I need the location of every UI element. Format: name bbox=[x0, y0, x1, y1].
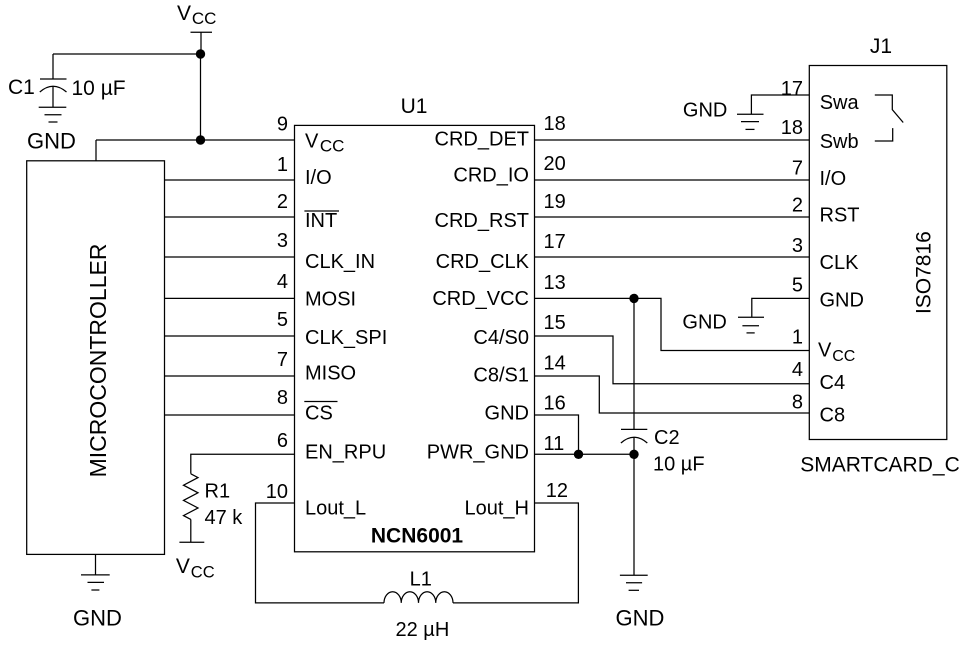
wire L1 to U1 Lout_H pin12 bbox=[453, 503, 578, 603]
svg-text:CLK: CLK bbox=[820, 252, 860, 274]
svg-text:Swa: Swa bbox=[820, 92, 860, 114]
J1 pin number 18 bbox=[781, 117, 803, 139]
svg-text:I/O: I/O bbox=[305, 167, 332, 189]
svg-text:Swb: Swb bbox=[820, 131, 859, 153]
node VCC label (top) bbox=[177, 2, 216, 28]
connector J1 box bbox=[809, 66, 947, 440]
svg-text:7: 7 bbox=[792, 157, 803, 179]
inductor L1 bbox=[384, 592, 453, 603]
J1 pin number 1 bbox=[792, 327, 803, 349]
svg-text:V: V bbox=[305, 131, 319, 153]
J1 pin label C8 bbox=[820, 404, 846, 426]
svg-text:ISO7816: ISO7816 bbox=[913, 231, 936, 314]
inductor L1 reference label bbox=[410, 569, 432, 591]
svg-text:MISO: MISO bbox=[305, 363, 356, 385]
capacitor C1 reference label bbox=[8, 76, 35, 99]
wire CRD_DET to J1 Swb bbox=[535, 139, 810, 141]
svg-text:MICROCONTROLLER: MICROCONTROLLER bbox=[85, 244, 111, 478]
svg-text:3: 3 bbox=[792, 235, 803, 257]
svg-text:GND: GND bbox=[27, 129, 76, 154]
op-amp U1 box NCN6001 bbox=[295, 125, 535, 551]
U1 pin number 8 bbox=[277, 387, 288, 409]
ground GND label below C2 bbox=[616, 605, 665, 630]
wire MCU to U1 pin 1 bbox=[165, 179, 295, 181]
svg-text:12: 12 bbox=[546, 480, 568, 502]
svg-text:5: 5 bbox=[277, 309, 288, 331]
svg-text:C1: C1 bbox=[8, 76, 35, 99]
U1 pin label GND bbox=[485, 403, 529, 425]
capacitor C1 value 10 uF bbox=[72, 77, 126, 100]
U1 pin label Lout_L bbox=[305, 497, 366, 519]
wire J1 pin17 to ground bbox=[751, 95, 809, 114]
power VCC bar below R1 bbox=[179, 541, 204, 543]
junction dot at VCC stem top bbox=[196, 49, 205, 58]
capacitor C1 bbox=[40, 54, 67, 107]
svg-text:18: 18 bbox=[781, 117, 803, 139]
J1 pin label GND bbox=[820, 290, 864, 312]
wire MCU to U1 pin 4 bbox=[165, 297, 295, 299]
junction dot CRD_VCC / C2 bbox=[629, 294, 638, 303]
svg-text:V: V bbox=[176, 555, 190, 578]
J1 pin label VCC bbox=[818, 340, 855, 365]
U1 pin label Lout_H bbox=[465, 497, 530, 519]
U1 pin number 2 bbox=[277, 191, 288, 213]
U1 pin label CS (active low) bbox=[305, 403, 333, 425]
U1 pin label CRD_IO bbox=[453, 165, 529, 187]
node VCC label below R1 bbox=[176, 555, 215, 581]
U1 pin number 12 bbox=[546, 480, 568, 502]
svg-text:17: 17 bbox=[781, 78, 803, 100]
svg-text:6: 6 bbox=[277, 430, 288, 452]
J1 pin label Swa bbox=[820, 92, 860, 114]
svg-text:4: 4 bbox=[277, 271, 288, 293]
J1 pin label CLK bbox=[820, 252, 860, 274]
ground symbol below C1 bbox=[39, 107, 67, 122]
svg-text:C8/S1: C8/S1 bbox=[473, 365, 529, 387]
wire VCC vertical stem down to pin9 row bbox=[200, 54, 202, 140]
overline for INT bbox=[304, 210, 339, 212]
U1 pin number 20 bbox=[544, 153, 566, 175]
svg-text:MOSI: MOSI bbox=[305, 289, 356, 311]
svg-text:GND: GND bbox=[485, 403, 529, 425]
U1 reference label bbox=[401, 95, 428, 118]
wire pin 9 row to U1 and jog down to microcontroller bbox=[96, 140, 295, 161]
junction dot pin11/C2 bbox=[629, 450, 638, 459]
inductor L1 value 22 uH bbox=[396, 619, 450, 641]
svg-text:15: 15 bbox=[544, 312, 566, 334]
svg-text:CRD_RST: CRD_RST bbox=[435, 210, 529, 232]
U1 pin number 16 bbox=[544, 393, 566, 415]
wire U1 Lout_L pin10 to L1 bbox=[256, 503, 385, 603]
ground GND label at J1 pin17 bbox=[683, 100, 727, 122]
svg-text:CRD_DET: CRD_DET bbox=[435, 129, 529, 151]
wire C4/S0 to J1 C4 bbox=[535, 336, 810, 384]
junction dot pin16/pin11 bbox=[574, 450, 583, 459]
U1 pin number 15 bbox=[544, 312, 566, 334]
wire MCU to U1 pin 8 bbox=[165, 414, 295, 416]
ground GND label below C1 bbox=[27, 129, 76, 154]
svg-text:CRD_CLK: CRD_CLK bbox=[436, 251, 530, 273]
svg-text:EN_RPU: EN_RPU bbox=[305, 442, 386, 464]
svg-text:18: 18 bbox=[544, 113, 566, 135]
capacitor C2 reference label bbox=[654, 427, 680, 449]
microcontroller label (rotated) bbox=[85, 244, 111, 478]
U1 pin label MOSI bbox=[305, 289, 356, 311]
U1 pin label INT (active low) bbox=[305, 210, 337, 232]
svg-text:PWR_GND: PWR_GND bbox=[427, 442, 529, 464]
U1 pin label C4/S0 bbox=[473, 327, 529, 349]
J1 pin number 4 bbox=[792, 359, 803, 381]
J1 pin number 17 bbox=[781, 78, 803, 100]
svg-text:1: 1 bbox=[277, 154, 288, 176]
microcontroller box bbox=[27, 161, 165, 555]
U1 pin number 1 bbox=[277, 154, 288, 176]
J1 pin label Swb bbox=[820, 131, 859, 153]
svg-text:CRD_IO: CRD_IO bbox=[453, 165, 529, 187]
svg-text:C8: C8 bbox=[820, 404, 846, 426]
svg-text:47 k: 47 k bbox=[205, 507, 244, 529]
svg-text:V: V bbox=[177, 2, 191, 25]
svg-text:10: 10 bbox=[266, 481, 288, 503]
svg-text:3: 3 bbox=[277, 230, 288, 252]
svg-text:7: 7 bbox=[277, 349, 288, 371]
svg-text:13: 13 bbox=[544, 272, 566, 294]
svg-text:C4: C4 bbox=[820, 372, 846, 394]
U1 pin number 7 bbox=[277, 349, 288, 371]
U1 pin label EN_RPU bbox=[305, 442, 386, 464]
svg-text:C4/S0: C4/S0 bbox=[473, 327, 529, 349]
svg-text:J1: J1 bbox=[870, 35, 892, 58]
wire CRD_IO to J1 I/O bbox=[535, 179, 810, 181]
ground GND label at J1 pin5 bbox=[682, 312, 726, 334]
wire CRD_VCC to J1 VCC bbox=[535, 298, 810, 350]
U1 pin label PWR_GND bbox=[427, 442, 529, 464]
overline for CS bbox=[304, 401, 337, 403]
U1 pin label I/O bbox=[305, 167, 332, 189]
svg-text:20: 20 bbox=[544, 153, 566, 175]
U1 pin label CRD_CLK bbox=[436, 251, 530, 273]
J1 pin number 2 bbox=[792, 195, 803, 217]
wire CRD_RST to J1 RST bbox=[535, 216, 810, 218]
svg-text:R1: R1 bbox=[205, 481, 231, 503]
capacitor C2 value 10 uF bbox=[653, 454, 705, 476]
svg-text:19: 19 bbox=[544, 191, 566, 213]
J1 pin label C4 bbox=[820, 372, 846, 394]
U1 pin number 17 bbox=[544, 231, 566, 253]
U1 pin label CRD_RST bbox=[435, 210, 529, 232]
svg-text:C2: C2 bbox=[654, 427, 680, 449]
J1 connector name SMARTCARD_C bbox=[800, 454, 959, 477]
svg-text:CC: CC bbox=[191, 563, 215, 581]
U1 pin label CLK_IN bbox=[305, 251, 375, 273]
resistor R1 value 47 k bbox=[205, 507, 244, 529]
wire CRD_CLK to J1 CLK bbox=[535, 256, 810, 258]
ground symbol at J1 pin5 bbox=[738, 317, 764, 333]
ground symbol at J1 pin17 bbox=[737, 114, 764, 129]
U1 pin label CRD_VCC bbox=[432, 288, 529, 310]
U1 pin number 11 bbox=[544, 433, 565, 455]
U1 pin number 13 bbox=[544, 272, 566, 294]
U1 pin number 18 bbox=[544, 113, 566, 135]
svg-text:Lout_L: Lout_L bbox=[305, 497, 366, 519]
resistor R1 with wire from U1 pin 6 bbox=[184, 454, 295, 542]
svg-text:L1: L1 bbox=[410, 569, 432, 591]
svg-text:2: 2 bbox=[277, 191, 288, 213]
svg-text:SMARTCARD_C: SMARTCARD_C bbox=[800, 454, 959, 477]
J1 pin label I/O bbox=[820, 168, 847, 190]
J1 pin number 3 bbox=[792, 235, 803, 257]
J1 reference label bbox=[870, 35, 892, 58]
svg-text:I/O: I/O bbox=[820, 168, 847, 190]
wire MCU to U1 pin 7 bbox=[165, 375, 295, 377]
svg-text:8: 8 bbox=[792, 391, 803, 413]
U1 pin label MISO bbox=[305, 363, 356, 385]
wire MCU to U1 pin 2 bbox=[165, 216, 295, 218]
wire VCC to C1 bbox=[53, 53, 201, 55]
svg-text:10 µF: 10 µF bbox=[653, 454, 705, 476]
wire GND pin16 down to PWR_GND wire bbox=[535, 415, 579, 454]
U1 pin number 3 bbox=[277, 230, 288, 252]
svg-text:Lout_H: Lout_H bbox=[465, 497, 530, 519]
wire J1 pin5 to ground bbox=[752, 298, 810, 317]
U1 pin label CRD_DET bbox=[435, 129, 529, 151]
J1 pin number 8 bbox=[792, 391, 803, 413]
svg-text:1: 1 bbox=[792, 327, 803, 349]
svg-text:2: 2 bbox=[792, 195, 803, 217]
svg-text:GND: GND bbox=[682, 312, 726, 334]
power VCC (top, near C1) bbox=[191, 32, 213, 54]
J1 standard label ISO7816 (rotated) bbox=[913, 231, 936, 314]
U1 pin number 5 bbox=[277, 309, 288, 331]
ground symbol below C2 bbox=[620, 575, 648, 590]
svg-text:RST: RST bbox=[820, 205, 860, 227]
U1 part name NCN6001 bbox=[371, 525, 464, 548]
wire C8/S1 to J1 C8 bbox=[535, 376, 810, 413]
svg-text:CC: CC bbox=[192, 9, 217, 28]
svg-text:U1: U1 bbox=[401, 95, 428, 118]
resistor R1 reference label bbox=[205, 481, 231, 503]
ground GND label below microcontroller bbox=[73, 606, 122, 631]
svg-text:5: 5 bbox=[792, 274, 803, 296]
svg-text:INT: INT bbox=[305, 210, 337, 232]
U1 pin number 10 bbox=[266, 481, 288, 503]
svg-text:GND: GND bbox=[820, 290, 864, 312]
junction dot on pin 9 wire bbox=[196, 135, 205, 144]
U1 pin number 6 bbox=[277, 430, 288, 452]
svg-text:9: 9 bbox=[277, 114, 288, 136]
svg-text:11: 11 bbox=[544, 433, 565, 455]
J1 pin label RST bbox=[820, 205, 860, 227]
svg-text:14: 14 bbox=[544, 353, 566, 375]
svg-text:16: 16 bbox=[544, 393, 566, 415]
U1 pin number 19 bbox=[544, 191, 566, 213]
svg-text:10 µF: 10 µF bbox=[72, 77, 126, 100]
wire MCU to U1 pin 5 bbox=[165, 335, 295, 337]
svg-text:22 µH: 22 µH bbox=[396, 619, 450, 641]
wire PWR_GND pin11 to C2 bbox=[535, 453, 635, 455]
svg-text:V: V bbox=[818, 340, 832, 362]
svg-text:NCN6001: NCN6001 bbox=[371, 525, 464, 548]
svg-text:CLK_IN: CLK_IN bbox=[305, 251, 375, 273]
svg-text:CRD_VCC: CRD_VCC bbox=[432, 288, 529, 310]
svg-text:CC: CC bbox=[320, 136, 345, 155]
U1 pin label CLK_SPI bbox=[305, 327, 387, 349]
svg-text:17: 17 bbox=[544, 231, 566, 253]
U1 pin label VCC bbox=[305, 131, 344, 156]
capacitor C2 bbox=[621, 298, 647, 575]
J1 pin number 5 bbox=[792, 274, 803, 296]
svg-text:CC: CC bbox=[832, 348, 855, 365]
wire MCU to U1 pin 3 bbox=[165, 256, 295, 258]
U1 pin number 9 bbox=[277, 114, 288, 136]
svg-text:GND: GND bbox=[73, 606, 122, 631]
J1 pin number 7 bbox=[792, 157, 803, 179]
svg-text:4: 4 bbox=[792, 359, 803, 381]
ground symbol below microcontroller bbox=[81, 554, 110, 590]
U1 pin number 4 bbox=[277, 271, 288, 293]
switch contacts Swa/Swb inside J1 bbox=[875, 95, 903, 141]
svg-text:8: 8 bbox=[277, 387, 288, 409]
svg-text:GND: GND bbox=[616, 605, 665, 630]
svg-text:CLK_SPI: CLK_SPI bbox=[305, 327, 387, 349]
svg-text:CS: CS bbox=[305, 403, 333, 425]
U1 pin number 14 bbox=[544, 353, 566, 375]
U1 pin label C8/S1 bbox=[473, 365, 529, 387]
svg-text:GND: GND bbox=[683, 100, 727, 122]
